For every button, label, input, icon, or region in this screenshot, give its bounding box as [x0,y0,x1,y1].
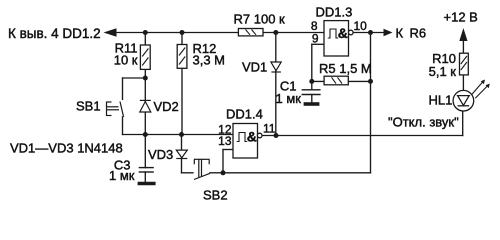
svg-text:9: 9 [312,32,319,46]
svg-text:+12 В: +12 В [444,10,478,25]
svg-text:11: 11 [263,122,276,136]
svg-text:1 мк: 1 мк [109,168,135,183]
svg-text:HL1: HL1 [429,93,453,108]
svg-text:DD1.3: DD1.3 [316,5,353,20]
svg-text:13: 13 [218,134,232,148]
svg-text:&: & [338,25,348,41]
svg-text:10 к: 10 к [114,53,138,68]
svg-text:VD3: VD3 [148,147,173,162]
svg-text:DD1.4: DD1.4 [226,107,263,122]
svg-text:VD2: VD2 [154,99,179,114]
svg-text:VD1—VD3 1N4148: VD1—VD3 1N4148 [10,141,123,156]
svg-text:10: 10 [354,19,368,33]
svg-text:R7 100 к: R7 100 к [234,12,286,27]
svg-text:R6: R6 [410,26,427,41]
svg-text:SB2: SB2 [203,188,228,203]
svg-text:5,1 к: 5,1 к [429,64,457,79]
svg-text:&: & [247,128,257,144]
svg-text:3,3 М: 3,3 М [193,53,226,68]
svg-text:1 мк: 1 мк [276,91,302,106]
svg-text:R5 1,5 М: R5 1,5 М [319,61,372,76]
svg-text:К: К [396,26,404,41]
svg-text:К выв. 4 DD1.2: К выв. 4 DD1.2 [8,26,101,41]
svg-text:SB1: SB1 [76,99,101,114]
svg-text:VD1: VD1 [242,60,267,75]
svg-text:"Откл. звук": "Откл. звук" [388,115,459,130]
